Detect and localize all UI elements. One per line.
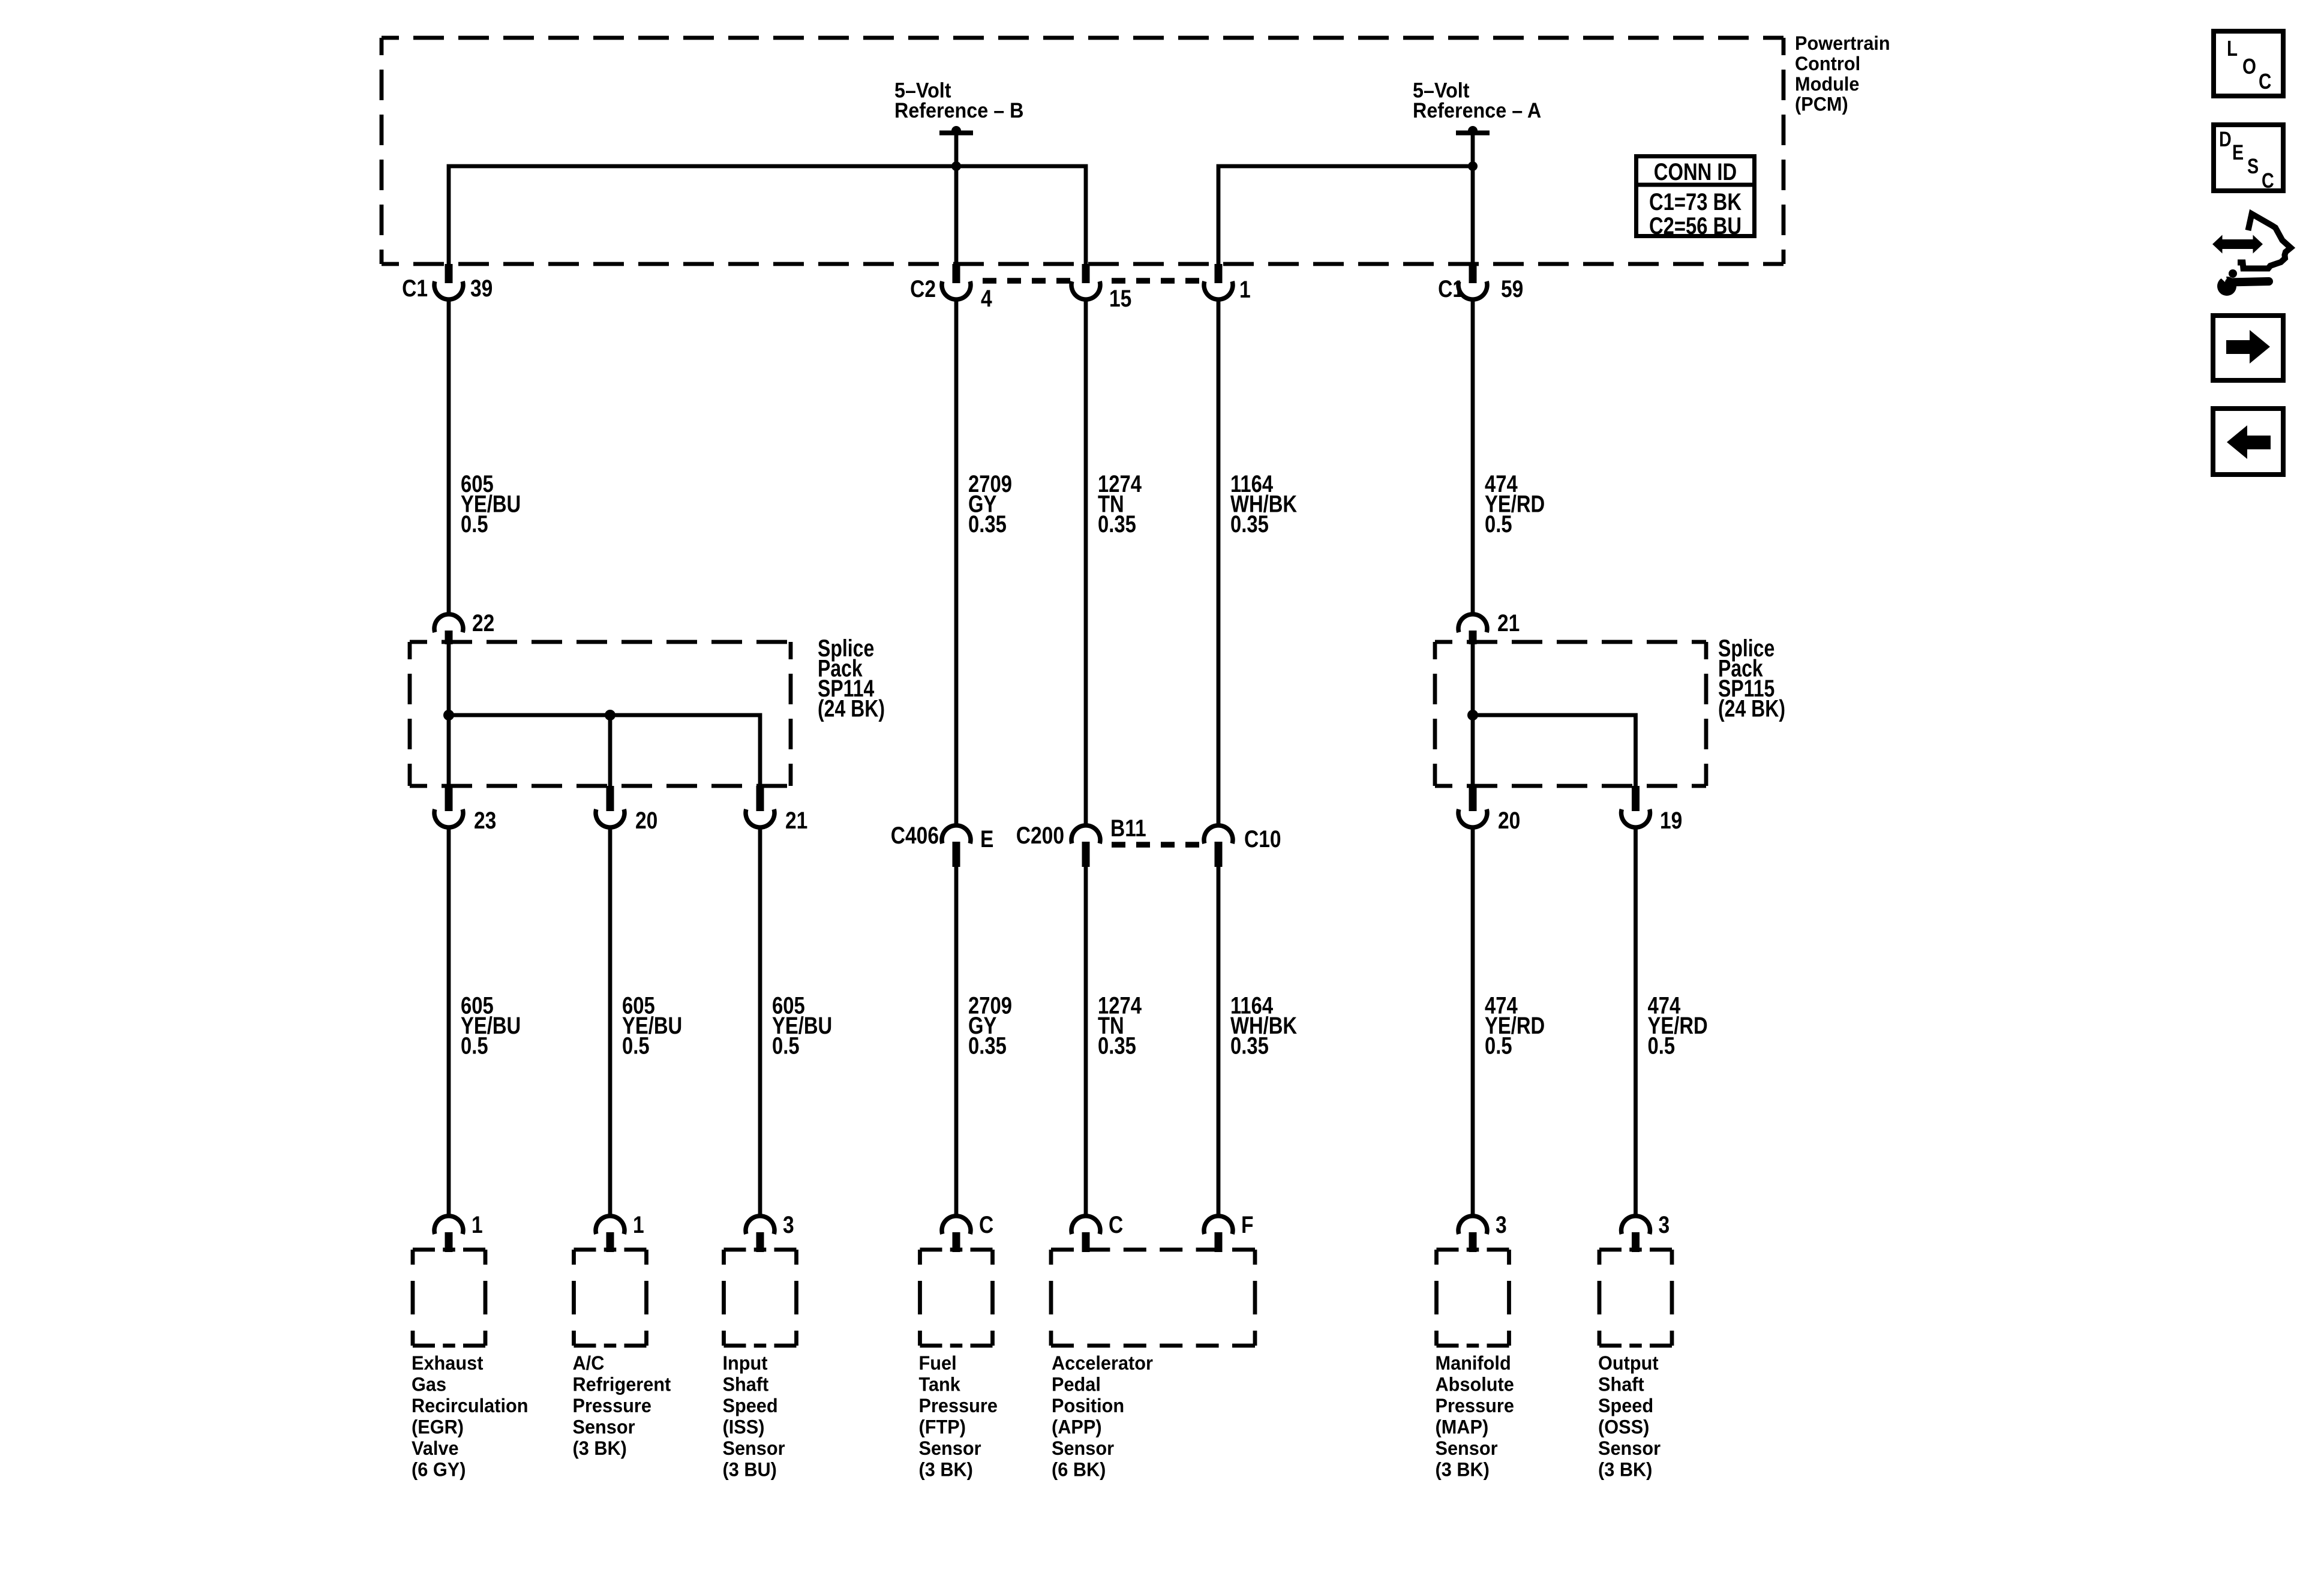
svg-text:Speed: Speed xyxy=(1598,1394,1653,1416)
svg-text:Speed: Speed xyxy=(723,1394,778,1416)
svg-text:(PCM): (PCM) xyxy=(1795,93,1848,115)
junction SP114 a xyxy=(443,710,454,721)
svg-text:(3 BK): (3 BK) xyxy=(919,1458,973,1481)
next-page arrow icon box xyxy=(2213,316,2283,380)
connector C406 E xyxy=(942,825,971,867)
svg-text:C406: C406 xyxy=(891,822,939,848)
svg-text:Fuel: Fuel xyxy=(919,1352,957,1374)
EGR valve label xyxy=(412,1352,529,1481)
hotlink wrench icon xyxy=(2212,214,2291,296)
CONN ID box xyxy=(1637,157,1755,236)
OSS sensor dashed box xyxy=(1599,1250,1672,1346)
label 15 xyxy=(1109,285,1131,311)
wire SP114 drop 20 xyxy=(608,715,612,786)
MAP sensor label xyxy=(1436,1352,1514,1481)
label C1 right xyxy=(1438,275,1464,302)
5-Volt Reference B terminal bar xyxy=(939,126,973,136)
A/C refrigerant pressure sensor label xyxy=(573,1352,671,1459)
splice pack SP114 box xyxy=(410,642,791,786)
svg-text:Reference – A: Reference – A xyxy=(1413,99,1541,123)
svg-text:C200: C200 xyxy=(1016,822,1064,848)
OSS sensor label xyxy=(1598,1352,1661,1481)
label 1 xyxy=(1239,276,1251,302)
connector pin 20b under SP115 xyxy=(1458,786,1487,827)
DESC icon letters xyxy=(2219,127,2274,192)
connector pin 1 of EGR valve xyxy=(434,1216,463,1252)
label 23 xyxy=(474,807,496,833)
DESC icon box xyxy=(2214,125,2283,191)
svg-text:Pressure: Pressure xyxy=(919,1394,998,1416)
svg-text:0.5: 0.5 xyxy=(461,1032,488,1059)
LOC icon box xyxy=(2214,31,2283,96)
connector pin F of APP sensor xyxy=(1204,1216,1233,1252)
svg-text:23: 23 xyxy=(474,807,496,833)
svg-text:Sensor: Sensor xyxy=(1598,1437,1661,1459)
5-Volt Reference A label xyxy=(1413,79,1541,122)
label 59 xyxy=(1501,275,1523,302)
pin label 3 of MAP sensor xyxy=(1496,1211,1507,1238)
CONN ID header text xyxy=(1654,158,1737,185)
svg-text:0.5: 0.5 xyxy=(1485,1032,1512,1059)
svg-text:20: 20 xyxy=(1498,807,1520,833)
5-Volt Reference A terminal bar xyxy=(1456,126,1490,136)
svg-text:3: 3 xyxy=(1659,1211,1670,1238)
wire 5V-B bus xyxy=(449,166,1086,264)
svg-text:Input: Input xyxy=(723,1352,768,1374)
svg-text:3: 3 xyxy=(783,1211,794,1238)
CONN ID row C2 xyxy=(1649,212,1742,239)
svg-text:39: 39 xyxy=(470,275,493,301)
svg-text:Control: Control xyxy=(1795,52,1860,74)
svg-text:1: 1 xyxy=(1239,276,1251,302)
label C1 xyxy=(402,275,428,301)
pin label C of FTP sensor xyxy=(979,1211,993,1238)
svg-text:Shaft: Shaft xyxy=(723,1373,769,1395)
wire label 605 upper xyxy=(461,470,521,538)
svg-text:3: 3 xyxy=(1496,1211,1507,1238)
wire label 1274 lower xyxy=(1098,992,1142,1059)
svg-text:(ISS): (ISS) xyxy=(723,1416,765,1438)
svg-text:0.5: 0.5 xyxy=(1648,1032,1676,1059)
label 22 xyxy=(472,610,494,636)
connector pin 1 xyxy=(1204,264,1233,299)
prev-page arrow xyxy=(2227,425,2271,459)
svg-text:(6 GY): (6 GY) xyxy=(412,1458,466,1481)
wire 1274 TN upper xyxy=(1084,298,1088,827)
svg-text:Powertrain: Powertrain xyxy=(1795,32,1890,54)
svg-text:D: D xyxy=(2219,127,2232,151)
label 20 xyxy=(635,807,657,833)
wire label 2709 lower xyxy=(968,992,1012,1059)
svg-text:Valve: Valve xyxy=(412,1437,459,1459)
wire 605 YE/BU lower-2 xyxy=(608,825,612,1218)
splice pack SP114 label xyxy=(818,635,885,722)
svg-text:C2=56 BU: C2=56 BU xyxy=(1649,212,1742,239)
svg-text:(OSS): (OSS) xyxy=(1598,1416,1649,1438)
wire label 474 upper xyxy=(1485,470,1545,538)
splice pack SP115 box xyxy=(1435,642,1706,786)
wire 605 YE/BU lower-1 xyxy=(447,825,451,1218)
connector pin 23 under SP114 xyxy=(434,786,463,827)
svg-text:C: C xyxy=(979,1211,993,1238)
wire SP114 internal bus xyxy=(449,715,760,786)
svg-text:Manifold: Manifold xyxy=(1436,1352,1511,1374)
svg-text:0.35: 0.35 xyxy=(1230,1032,1269,1059)
svg-text:Exhaust: Exhaust xyxy=(412,1352,484,1374)
svg-text:C10: C10 xyxy=(1244,825,1281,852)
connector pin 15 xyxy=(1071,264,1100,299)
connector pin 3 of MAP sensor xyxy=(1458,1216,1487,1252)
svg-text:21: 21 xyxy=(1497,610,1520,636)
svg-text:(3 BK): (3 BK) xyxy=(1436,1458,1490,1481)
svg-text:Tank: Tank xyxy=(919,1373,961,1395)
svg-text:0.5: 0.5 xyxy=(622,1032,650,1059)
connector pin 20 under SP114 xyxy=(596,786,624,827)
wire 2709 GY lower xyxy=(954,867,959,1218)
svg-text:(24 BK): (24 BK) xyxy=(818,695,885,722)
ISS sensor dashed box xyxy=(724,1250,797,1346)
5-Volt Reference B label xyxy=(894,79,1023,122)
svg-text:C1: C1 xyxy=(1438,275,1464,302)
pin label 1 of A/C refrigerant pressure sensor xyxy=(633,1211,644,1238)
connector 21 into SP115 xyxy=(1458,614,1487,644)
svg-text:0.5: 0.5 xyxy=(461,511,488,538)
MAP sensor dashed box xyxy=(1437,1250,1509,1346)
svg-text:O: O xyxy=(2242,54,2256,78)
svg-text:Sensor: Sensor xyxy=(723,1437,785,1459)
FTP sensor label xyxy=(919,1352,998,1481)
wire 2709 GY upper xyxy=(954,298,959,827)
wire 605 YE/BU lower-3 xyxy=(758,825,762,1218)
svg-text:Accelerator: Accelerator xyxy=(1052,1352,1153,1374)
label 19 xyxy=(1660,807,1682,833)
label 21 lower xyxy=(785,807,807,833)
svg-text:(MAP): (MAP) xyxy=(1436,1416,1489,1438)
wire 474 YE/RD lower-2 xyxy=(1634,825,1638,1218)
wire 1164 WH/BK upper xyxy=(1217,298,1221,827)
connector pin 1 of A/C refrigerant pressure sensor xyxy=(596,1216,624,1252)
connector C200 B11 xyxy=(1071,825,1100,867)
svg-text:Sensor: Sensor xyxy=(1052,1437,1114,1459)
wire 1274 TN lower xyxy=(1084,867,1088,1218)
svg-text:Refrigerent: Refrigerent xyxy=(573,1373,671,1395)
svg-text:20: 20 xyxy=(635,807,657,833)
svg-text:C: C xyxy=(2259,69,2271,93)
wire 474 YE/RD lower-1 xyxy=(1471,825,1475,1218)
connector pin 3 of ISS sensor xyxy=(746,1216,774,1252)
svg-text:19: 19 xyxy=(1660,807,1682,833)
connector pin C of FTP sensor xyxy=(942,1216,971,1252)
label 4 xyxy=(981,285,992,311)
LOC icon letters xyxy=(2227,36,2271,93)
pin label 1 of EGR valve xyxy=(472,1211,483,1238)
junction SP115 xyxy=(1467,710,1478,721)
svg-text:E: E xyxy=(980,825,993,852)
svg-text:C2: C2 xyxy=(910,275,936,302)
svg-text:F: F xyxy=(1241,1211,1254,1238)
wire label 474 lower-2 xyxy=(1648,992,1708,1059)
svg-text:1: 1 xyxy=(472,1211,483,1238)
label C406 xyxy=(891,822,939,848)
label C2 xyxy=(910,275,936,302)
svg-text:(24 BK): (24 BK) xyxy=(1718,695,1785,722)
svg-text:Position: Position xyxy=(1052,1394,1124,1416)
connector pin 19 under SP115 xyxy=(1622,786,1650,827)
connector C10 xyxy=(1204,825,1233,867)
svg-text:15: 15 xyxy=(1109,285,1131,311)
svg-text:4: 4 xyxy=(981,285,992,311)
svg-text:Reference – B: Reference – B xyxy=(894,99,1023,123)
svg-text:(3 BK): (3 BK) xyxy=(1598,1458,1652,1481)
svg-text:Pedal: Pedal xyxy=(1052,1373,1101,1395)
svg-text:A/C: A/C xyxy=(573,1352,605,1374)
A/C refrigerant pressure sensor dashed box xyxy=(574,1250,647,1346)
svg-text:22: 22 xyxy=(472,610,494,636)
connector pin C2 4 xyxy=(942,264,971,299)
wire label 605 lower-2 xyxy=(622,992,682,1059)
wire label 474 lower-1 xyxy=(1485,992,1545,1059)
wire label 605 lower-3 xyxy=(772,992,832,1059)
label 20 right xyxy=(1498,807,1520,833)
pin label 3 of OSS sensor xyxy=(1659,1211,1670,1238)
svg-text:C: C xyxy=(1109,1211,1123,1238)
splice pack SP115 label xyxy=(1718,635,1785,722)
svg-text:0.35: 0.35 xyxy=(1230,511,1269,538)
svg-text:S: S xyxy=(2247,154,2259,178)
svg-text:E: E xyxy=(2232,140,2244,164)
wire 1164 WH/BK lower xyxy=(1217,867,1221,1218)
svg-text:C1: C1 xyxy=(402,275,428,301)
connector pin C of APP sensor xyxy=(1071,1216,1100,1252)
connector pin 21 under SP114 xyxy=(746,786,774,827)
pin label F of APP sensor xyxy=(1241,1211,1254,1238)
ISS sensor label xyxy=(723,1352,785,1481)
svg-text:0.35: 0.35 xyxy=(1098,1032,1136,1059)
svg-text:(EGR): (EGR) xyxy=(412,1416,464,1438)
wire 5V-A bus xyxy=(1218,166,1473,264)
junction 5V-B xyxy=(951,161,961,171)
label C10 xyxy=(1244,825,1281,852)
svg-text:Module: Module xyxy=(1795,73,1859,95)
label 21 xyxy=(1497,610,1520,636)
APP sensor label xyxy=(1052,1352,1153,1481)
FTP sensor dashed box xyxy=(920,1250,993,1346)
connector pin C1 39 xyxy=(434,264,463,299)
svg-text:0.35: 0.35 xyxy=(968,511,1007,538)
APP sensor dashed box xyxy=(1051,1250,1255,1346)
junction 5V-A xyxy=(1468,161,1478,171)
connector bridge C200-C10 xyxy=(1101,842,1203,848)
wire label 2709 upper xyxy=(968,470,1012,538)
svg-text:Recirculation: Recirculation xyxy=(412,1394,529,1416)
prev-page arrow icon box xyxy=(2213,409,2283,475)
junction SP114 b xyxy=(605,710,615,721)
svg-text:B11: B11 xyxy=(1110,815,1146,841)
svg-text:1: 1 xyxy=(633,1211,644,1238)
pin label C of APP sensor xyxy=(1109,1211,1123,1238)
svg-text:CONN ID: CONN ID xyxy=(1654,158,1737,185)
svg-text:0.35: 0.35 xyxy=(1098,511,1136,538)
svg-text:Sensor: Sensor xyxy=(1436,1437,1498,1459)
wire SP115 internal vertical xyxy=(1471,642,1475,786)
svg-text:0.5: 0.5 xyxy=(772,1032,800,1059)
wire 5V-B drop xyxy=(954,132,959,264)
svg-text:C: C xyxy=(2262,169,2274,192)
svg-text:Gas: Gas xyxy=(412,1373,446,1395)
PCM label xyxy=(1795,32,1890,115)
wire 5V-A drop xyxy=(1471,132,1475,166)
wire label 1164 upper xyxy=(1230,470,1298,538)
svg-text:(APP): (APP) xyxy=(1052,1416,1102,1438)
svg-text:0.5: 0.5 xyxy=(1485,511,1512,538)
wire label 1274 upper xyxy=(1098,470,1142,538)
svg-text:Shaft: Shaft xyxy=(1598,1373,1644,1395)
svg-text:Pressure: Pressure xyxy=(573,1394,651,1416)
svg-text:Absolute: Absolute xyxy=(1436,1373,1514,1395)
PCM module dashed box xyxy=(382,38,1783,264)
svg-text:C1=73 BK: C1=73 BK xyxy=(1649,188,1742,215)
CONN ID row C1 xyxy=(1649,188,1742,215)
svg-text:L: L xyxy=(2227,36,2238,60)
svg-text:Output: Output xyxy=(1598,1352,1659,1374)
label B11 xyxy=(1110,815,1146,841)
label C200 xyxy=(1016,822,1064,848)
svg-text:(6 BK): (6 BK) xyxy=(1052,1458,1106,1481)
label 39 xyxy=(470,275,493,301)
label E xyxy=(980,825,993,852)
svg-text:Sensor: Sensor xyxy=(919,1437,981,1459)
wire label 1164 lower xyxy=(1230,992,1298,1059)
pin label 3 of ISS sensor xyxy=(783,1211,794,1238)
svg-text:(3 BK): (3 BK) xyxy=(573,1437,627,1459)
wire label 605 lower-1 xyxy=(461,992,521,1059)
svg-text:0.35: 0.35 xyxy=(968,1032,1007,1059)
next-page arrow xyxy=(2226,330,2270,364)
svg-text:(FTP): (FTP) xyxy=(919,1416,966,1438)
wire SP114 internal vertical xyxy=(447,642,451,786)
svg-text:Pressure: Pressure xyxy=(1436,1394,1514,1416)
wire 605 YE/BU upper xyxy=(447,298,451,616)
wire 474 YE/RD upper xyxy=(1471,298,1475,616)
svg-text:59: 59 xyxy=(1501,275,1523,302)
connector pin C1 59 xyxy=(1458,264,1487,299)
connector pin 3 of OSS sensor xyxy=(1622,1216,1650,1252)
connector bridge C2 xyxy=(972,278,1203,284)
EGR valve dashed box xyxy=(413,1250,485,1346)
wire SP115 internal bus xyxy=(1473,715,1636,786)
svg-text:21: 21 xyxy=(785,807,807,833)
svg-text:(3 BU): (3 BU) xyxy=(723,1458,777,1481)
svg-text:Sensor: Sensor xyxy=(573,1416,635,1438)
connector 22 into SP114 xyxy=(434,614,463,644)
